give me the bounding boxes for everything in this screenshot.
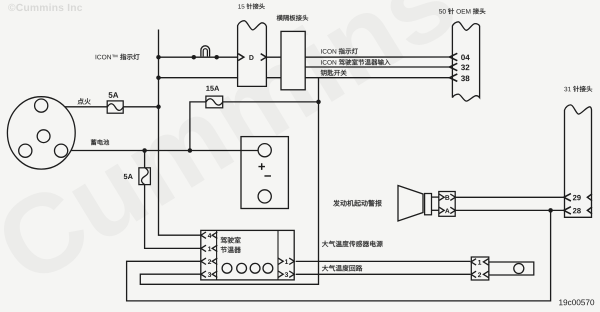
cab thermostat box [201,230,294,280]
fuse F3 5A [139,168,151,185]
thermostat pin 3 [201,271,206,277]
wire thermostat pin 1 to sensor supply [296,260,471,262]
node bus/ignition junction [156,105,161,110]
connector 50-pin OEM [452,22,479,101]
alarm connector B/A [439,192,455,217]
alarm horn [398,186,423,222]
wire pin D to bulkhead and OEM pin 04 [266,56,450,58]
wire ignition: key switch to fuse F1 [49,106,108,108]
label ICON indicator lamp TM [95,55,98,60]
wire battery to fuse F2 15A [190,102,206,151]
fuse F1 5A [107,101,123,113]
node battery/fuse F3 junction [142,148,147,153]
lamp ICON indicator [201,46,210,57]
node keyswitch-net junction [316,100,321,105]
pin D arrows and label [238,54,244,61]
watermark Cummins logo [0,0,460,287]
label key switch [321,70,327,76]
alarm leads [432,196,439,198]
thermostat label text [221,237,227,243]
wire thermostat pin 2 ground loop [127,210,551,301]
pin 04 arrow and number [450,53,458,60]
wire bulkhead to OEM pin 32 [305,66,450,68]
sensor connector [471,257,489,280]
label ignition [78,98,84,104]
sensor body [489,262,534,275]
copyright note [8,4,15,11]
diagram number [559,300,563,306]
sensor pin 1 [471,259,476,265]
label 50-pin OEM connector [439,9,442,14]
label engine starting alarm [333,200,340,206]
wire main switched bus vertical [159,30,201,236]
connector bulkhead [281,31,305,89]
node battery/fuse F2 junction [188,148,193,153]
thermostat pin 1 [201,245,206,251]
thermostat right pin 1 [278,258,283,264]
wire key-switch net vertical drop [140,78,318,285]
label ICON cab thermostat input [320,60,323,64]
fuse F2 15A [206,96,223,108]
label ICON indicator output [320,49,323,53]
thermostat pin 4 [201,232,206,238]
wire key switch signal row to 50-pin pin 38 [159,77,451,79]
label ambient temp return [322,265,328,271]
key switch rotary [7,97,75,169]
wire thermostat pin 3 to sensor return [296,273,471,275]
thermostat right pin 3 [278,271,283,277]
pin 29 arrows and number [564,194,571,201]
wire alarm pin A to 31-pin 28 [455,209,563,211]
connector 31-pin [565,105,592,217]
label 15-pin connector [238,4,241,8]
label battery [91,139,97,145]
label ambient temp sensor supply [322,241,328,247]
node ground loop junction [548,208,553,213]
wire fuse F1 to bus node [123,106,158,108]
node lamp left terminal [192,55,197,60]
wire fuse F2 to key-switch net junction [223,101,319,103]
pin 28 arrows and number [564,207,571,214]
wire fuse F3 drop to thermostat pin 1 [144,151,146,168]
label bulkhead connector [277,15,283,21]
wire battery feed [68,150,259,152]
thermostat pin 2 [201,258,206,264]
thermostat adjust holes [222,263,232,273]
node bus/lamp junction [156,55,161,60]
wire ICON lamp feed [159,56,239,58]
node bus/keyswitch-row junction [156,75,161,80]
connector 15-pin [238,21,267,87]
wire alarm pin B to 31-pin 29 [455,196,563,198]
sensor pin 2 [471,271,476,277]
node lamp right terminal [214,55,219,60]
battery [241,137,288,209]
pin 32 arrow and number [450,63,458,70]
label 31-pin connector [564,87,567,92]
pin 38 arrow and number [450,74,458,81]
